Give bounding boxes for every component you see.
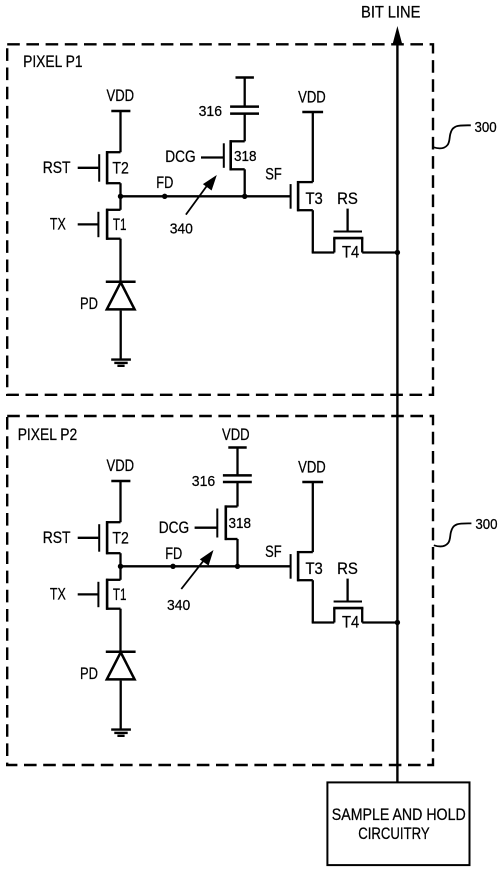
wire terminal to capacitor 316 (pixel P1)	[244, 78, 246, 107]
wire T3 source to T4 (pixel P2)	[312, 621, 335, 623]
wire capacitor to transistor 318 drain (pixel P2)	[236, 482, 238, 507]
svg-text:316: 316	[192, 473, 215, 490]
svg-text:RS: RS	[337, 189, 358, 208]
svg-text:PIXEL P2: PIXEL P2	[18, 425, 77, 444]
capacitor top terminal bar (pixel P2)	[228, 446, 246, 449]
svg-text:T3: T3	[306, 189, 323, 208]
capacitor C316 plates (pixel P1)	[230, 105, 259, 108]
transistor T3 (source follower, pixel P2)	[297, 551, 313, 553]
photodiode PD triangle (pixel P2)	[107, 652, 135, 679]
wire FD to T1 drain (pixel P2)	[119, 566, 121, 580]
svg-text:DCG: DCG	[159, 518, 189, 537]
wire T3 source down (pixel P1)	[312, 210, 314, 252]
FD node dot (pixel P1)	[162, 194, 167, 199]
reference leader squiggle 300 (pixel P2)	[434, 523, 472, 546]
DCG gate lead wire (pixel P2)	[195, 527, 217, 529]
transistor T2 (reset, pixel P1)	[106, 151, 120, 153]
TX gate lead wire (pixel P1)	[78, 223, 98, 225]
svg-text:318: 318	[229, 515, 252, 532]
transistor T1 (transfer, pixel P2)	[106, 579, 120, 581]
svg-text:FD: FD	[156, 173, 173, 192]
svg-text:VDD: VDD	[222, 425, 250, 444]
svg-text:VDD: VDD	[107, 456, 135, 475]
VDD supply terminal bar (reset drain, pixel P2)	[111, 480, 130, 483]
pixel P2 dashed boundary box	[7, 416, 433, 765]
svg-text:SF: SF	[265, 165, 282, 184]
RS gate lead wire (pixel P1)	[346, 209, 348, 231]
wire 318 source to FD node (pixel P2)	[236, 539, 238, 566]
svg-text:T2: T2	[112, 159, 128, 178]
svg-text:RST: RST	[43, 158, 71, 177]
TX gate lead wire (pixel P2)	[78, 593, 98, 595]
junction dot on bit line (pixel P1)	[395, 250, 400, 255]
VDD supply terminal bar (reset drain, pixel P1)	[111, 110, 130, 113]
svg-text:FD: FD	[165, 544, 182, 563]
svg-text:T1: T1	[113, 585, 127, 604]
reference leader squiggle 300 (pixel P1)	[433, 125, 471, 148]
transistor 318 DCG (pixel P1)	[230, 140, 245, 142]
svg-text:PD: PD	[80, 294, 98, 313]
photodiode PD triangle (pixel P1)	[107, 282, 135, 309]
svg-text:CIRCUITRY: CIRCUITRY	[358, 824, 430, 843]
transistor T1 (transfer, pixel P1)	[106, 209, 120, 211]
reference arrow 340 (pixel P1)	[186, 184, 209, 215]
wire VDD to T2 drain (pixel P2)	[119, 481, 121, 522]
svg-text:VDD: VDD	[107, 86, 135, 105]
svg-text:316: 316	[199, 103, 222, 120]
photodiode PD cathode bar (pixel P2)	[106, 651, 136, 654]
RST gate lead wire (pixel P2)	[78, 537, 99, 539]
wire terminal to capacitor 316 (pixel P2)	[236, 448, 238, 476]
svg-text:340: 340	[170, 221, 193, 237]
wire capacitor to transistor 318 drain (pixel P1)	[244, 114, 246, 142]
svg-text:TX: TX	[50, 215, 66, 234]
bit line arrowhead	[392, 26, 402, 45]
bit line vertical wire	[396, 40, 398, 782]
junction dot T2/T1/FD (pixel P1)	[118, 194, 123, 199]
svg-text:DCG: DCG	[165, 147, 195, 166]
SAMPLE AND HOLD CIRCUITRY box	[327, 782, 469, 865]
wire T3 source down (pixel P2)	[312, 580, 314, 622]
wire T3 source to T4 (pixel P1)	[312, 251, 335, 253]
FD node dot (pixel P2)	[170, 564, 175, 569]
transistor 318 DCG (pixel P2)	[225, 505, 238, 507]
wire T2 source to FD node (pixel P2)	[119, 553, 121, 566]
svg-text:300: 300	[475, 120, 497, 136]
VDD supply terminal bar (source follower drain, pixel P1)	[302, 111, 323, 114]
wire photodiode anode to ground (pixel P1)	[120, 311, 122, 360]
wire VDD to T3 drain (pixel P1)	[312, 112, 314, 182]
svg-text:340: 340	[167, 598, 190, 614]
svg-text:300: 300	[475, 517, 497, 533]
svg-text:VDD: VDD	[298, 88, 326, 107]
wire VDD to T2 drain (pixel P1)	[119, 111, 121, 152]
svg-text:SAMPLE AND HOLD: SAMPLE AND HOLD	[332, 805, 466, 824]
pixel P1 dashed boundary box	[7, 44, 433, 395]
svg-text:VDD: VDD	[298, 458, 326, 477]
svg-text:BIT LINE: BIT LINE	[361, 3, 421, 22]
VDD supply terminal bar (source follower drain, pixel P2)	[302, 481, 323, 484]
wire VDD to T3 drain (pixel P2)	[312, 482, 314, 552]
junction dot on bit line (pixel P2)	[395, 620, 400, 625]
wire T2 source to FD node (pixel P1)	[119, 183, 121, 196]
svg-text:T4: T4	[342, 243, 359, 262]
svg-text:318: 318	[234, 148, 257, 165]
transistor T3 (source follower, pixel P1)	[297, 181, 313, 183]
wire FD to T1 drain (pixel P1)	[119, 196, 121, 210]
capacitor C316 plates (pixel P2)	[223, 474, 252, 477]
RS gate lead wire (pixel P2)	[346, 579, 348, 601]
svg-text:SF: SF	[265, 542, 282, 561]
wire T1 source to photodiode (pixel P2)	[119, 609, 121, 652]
junction dot 318 source on FD wire (pixel P1)	[242, 194, 247, 199]
wire T1 source to photodiode (pixel P1)	[119, 239, 121, 282]
reference arrow 340 (pixel P2)	[181, 559, 205, 589]
ground symbol (pixel P1)	[111, 358, 131, 360]
svg-text:RST: RST	[43, 528, 71, 547]
svg-text:T1: T1	[113, 215, 127, 234]
FD node horizontal wire (pixel P1)	[121, 195, 291, 197]
junction dot 318 source on FD wire (pixel P2)	[235, 564, 240, 569]
RST gate lead wire (pixel P1)	[78, 167, 99, 169]
FD node horizontal wire (pixel P2)	[121, 565, 291, 567]
wire photodiode anode to ground (pixel P2)	[120, 681, 122, 730]
photodiode PD cathode bar (pixel P1)	[106, 281, 136, 284]
ground symbol (pixel P2)	[111, 728, 131, 730]
transistor T4 (row select, pixel P1)	[333, 238, 335, 252]
svg-text:PIXEL P1: PIXEL P1	[23, 52, 83, 71]
wire T4 to bit line (pixel P2)	[362, 621, 397, 623]
junction dot T2/T1/FD (pixel P2)	[118, 564, 123, 569]
DCG gate lead wire (pixel P1)	[201, 156, 223, 158]
transistor T4 (row select, pixel P2)	[333, 608, 335, 622]
svg-text:RS: RS	[337, 559, 358, 578]
svg-text:T4: T4	[342, 613, 359, 632]
svg-text:TX: TX	[50, 585, 66, 604]
svg-text:T3: T3	[306, 559, 323, 578]
wire 318 source to FD node (pixel P1)	[244, 169, 246, 196]
svg-text:T2: T2	[112, 529, 128, 548]
wire T4 to bit line (pixel P1)	[362, 251, 397, 253]
svg-text:PD: PD	[80, 664, 98, 683]
capacitor top terminal bar (pixel P1)	[236, 76, 254, 79]
transistor T2 (reset, pixel P2)	[106, 521, 120, 523]
